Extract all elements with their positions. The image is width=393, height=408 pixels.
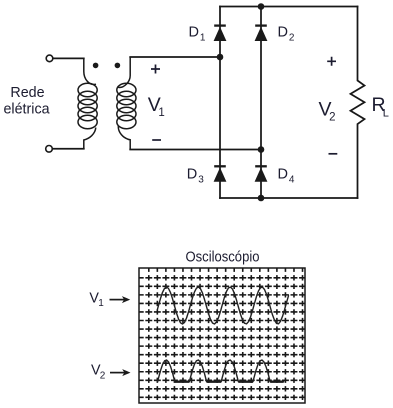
label V1 plus (151, 65, 160, 74)
arrow V2 (110, 372, 125, 374)
transformer primary coil (78, 58, 97, 148)
label D1 (189, 24, 206, 43)
svg-text:1: 1 (158, 107, 164, 119)
label V2 scope (91, 363, 106, 382)
label V2 minus (329, 153, 338, 155)
svg-text:2: 2 (289, 33, 295, 44)
diode D2 (255, 26, 268, 41)
waveform V2 baseline bold segments (175, 381, 284, 383)
label V2 (319, 99, 336, 124)
svg-text:1: 1 (200, 33, 206, 44)
svg-text:Rede: Rede (10, 85, 44, 101)
label D3 (187, 166, 204, 185)
junction node A (217, 54, 224, 61)
arrow V1 (110, 299, 125, 301)
diode D4 (255, 166, 268, 181)
svg-text:Osciloscópio: Osciloscópio (186, 250, 260, 266)
wire right rail (260, 7, 262, 199)
svg-text:D: D (187, 166, 197, 182)
svg-text:3: 3 (198, 175, 204, 186)
svg-text:D: D (189, 24, 199, 40)
oscilloscope graticule grid (139, 268, 305, 403)
wire node A: secondary top to bridge (130, 56, 220, 58)
svg-text:4: 4 (289, 175, 295, 186)
waveform V2 rectified (158, 360, 284, 382)
label RL (372, 94, 389, 119)
label V1 scope (89, 290, 104, 309)
wire mains bottom (52, 148, 83, 150)
label V1 minus (152, 139, 161, 141)
svg-text:1: 1 (98, 298, 104, 309)
diode D3 (214, 166, 227, 181)
wire left rail (219, 7, 221, 199)
wire mains top (53, 57, 84, 59)
wire top bus (220, 6, 358, 8)
resistor RL (351, 7, 365, 199)
wire bottom bus (220, 197, 358, 199)
oscilloscope screen border (139, 268, 305, 403)
svg-text:D: D (278, 24, 288, 40)
svg-text:2: 2 (100, 370, 106, 381)
label D4 (278, 166, 295, 185)
label D2 (278, 24, 295, 43)
svg-text:D: D (278, 166, 288, 182)
junction bottom bus (258, 195, 265, 202)
svg-text:L: L (383, 107, 389, 119)
terminal mains top (46, 55, 53, 62)
svg-text:2: 2 (329, 111, 335, 123)
transformer secondary coil (117, 57, 136, 150)
wire node B: secondary bottom to bridge (130, 149, 261, 151)
junction node B (258, 146, 265, 153)
diode D1 (214, 26, 227, 41)
terminal mains bottom (46, 146, 53, 153)
label V1 (148, 94, 165, 119)
label V2 plus (327, 57, 336, 66)
svg-text:elétrica: elétrica (3, 101, 49, 117)
polarity dot primary (93, 63, 99, 69)
label Rede elétrica (3, 85, 49, 117)
polarity dot secondary (115, 63, 121, 69)
waveform V1 sine (158, 287, 289, 324)
junction top bus (258, 3, 265, 10)
